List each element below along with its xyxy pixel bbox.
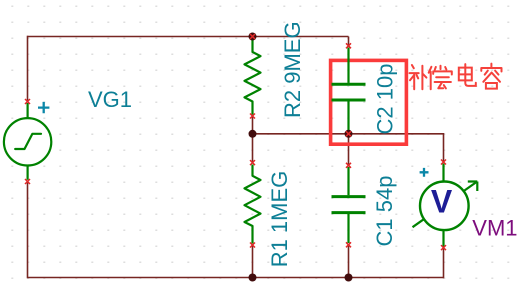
svg-text:VM1: VM1 <box>472 216 517 241</box>
label and value: C1 54p <box>372 176 397 247</box>
pin marker x: VM1 bottom pin <box>441 245 446 250</box>
wire: left rail lower (VG1 - pin to bottom rail) <box>27 182 29 279</box>
wire: bottom rail <box>28 277 444 279</box>
wire: left rail upper (top rail to VG1 + pin) <box>27 36 29 101</box>
pin marker x: C2 top pin <box>346 43 351 48</box>
wire: top rail from VG1 to C2 corner <box>28 36 349 38</box>
junction node: C1 bottom on bottom rail <box>345 274 353 282</box>
capacitor C2 10p <box>332 48 366 133</box>
label and value: R2 9MEG <box>280 21 305 118</box>
capacitor C1 54p <box>332 167 366 243</box>
junction node: R2 top on top rail <box>249 33 257 41</box>
plus polarity mark of VG1 <box>38 102 49 113</box>
label and value: R1 1MEG <box>267 171 292 268</box>
wire: VM1 bottom pin to bottom rail <box>443 248 445 278</box>
wire: middle rail from node A to VM1 corner <box>253 133 444 135</box>
svg-text:VG1: VG1 <box>88 87 132 112</box>
wire: R1 top pin link <box>252 134 254 162</box>
pin marker x: R2 bottom pin <box>250 114 255 119</box>
annotation text: 补偿电容 (compensation capacitor), drawn as strokes <box>410 64 502 90</box>
wire: R1 bottom pin to bottom rail <box>252 246 254 278</box>
pin marker x: R1 top pin <box>250 160 255 165</box>
pin marker x: VG1 top pin <box>25 99 30 104</box>
svg-text:R2 9MEG: R2 9MEG <box>280 21 305 118</box>
resistor R1 <box>245 165 261 244</box>
svg-text:C1 54p: C1 54p <box>372 176 397 247</box>
voltage source VG1 <box>4 103 51 180</box>
junction node: R1 bottom on bottom rail <box>249 274 257 282</box>
wire: top-right drop into C2 top pin <box>348 37 350 47</box>
pin marker x: C2 bottom pin on node B <box>346 131 351 136</box>
label and value: C2 10p <box>372 64 397 135</box>
annotation box highlighting C2 (compensation capacitor) <box>331 60 407 144</box>
pin marker x: VG1 bottom pin <box>25 179 30 184</box>
label VG1 <box>88 87 132 112</box>
voltmeter VM1 <box>413 164 478 247</box>
plus polarity mark of VM1 <box>420 168 429 177</box>
wire: R2 bottom pin to middle node <box>252 116 254 134</box>
wire: C1 bottom pin to bottom rail <box>348 245 350 278</box>
junction node A: R2/R1/middle rail <box>249 130 257 138</box>
pin marker x: R1 bottom pin <box>250 243 255 248</box>
svg-text:V: V <box>431 183 453 219</box>
svg-text:C2 10p: C2 10p <box>372 64 397 135</box>
pin marker x: VM1 top pin <box>441 160 446 165</box>
wire: VM1 top pin link from middle rail <box>443 133 445 162</box>
pin marker x: C1 bottom pin <box>346 242 351 247</box>
junction node B: C2 bottom / C1 top <box>345 130 353 138</box>
wire: C1 top pin link from node B <box>348 134 350 165</box>
svg-text:R1 1MEG: R1 1MEG <box>267 171 292 268</box>
label VM1 <box>472 216 517 241</box>
resistor R2 <box>245 40 261 115</box>
pin marker x: R2 top pin <box>250 34 255 39</box>
pin marker x: C1 top pin <box>346 163 351 168</box>
